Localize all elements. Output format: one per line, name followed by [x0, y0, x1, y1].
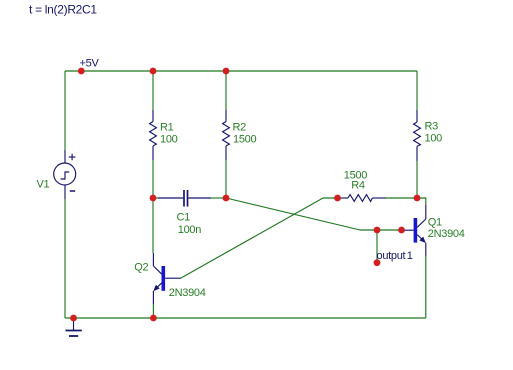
svg-text:Q2: Q2: [134, 262, 148, 274]
wire R1 bottom: [152, 160, 154, 198]
wire R2 top: [225, 71, 227, 110]
wire R3 top: [416, 71, 418, 110]
ground: [66, 318, 82, 336]
svg-text:2N3904: 2N3904: [428, 228, 465, 240]
resistor R3: [414, 110, 421, 161]
wire R1 top: [152, 71, 154, 110]
wire diagonal B (R4 left to Q2 base): [181, 198, 323, 278]
junction dot node C1 right: [223, 195, 230, 202]
svg-text:2N3904: 2N3904: [169, 287, 206, 299]
wire C1 left stub: [153, 197, 158, 199]
svg-text:1500: 1500: [233, 133, 256, 145]
svg-text:R4: R4: [351, 179, 365, 191]
svg-text:100n: 100n: [178, 224, 201, 236]
voltage source V1: [54, 150, 76, 199]
svg-text:output1: output1: [377, 250, 413, 262]
svg-text:R1: R1: [160, 122, 174, 134]
wire R4 right: [386, 197, 417, 199]
junction dot R1 top: [150, 68, 157, 75]
svg-text:V1: V1: [37, 179, 50, 191]
wire R3 bottom: [416, 161, 418, 198]
wire Q1 collector top: [417, 198, 426, 205]
wire top rail +5V: [65, 70, 417, 72]
resistor R4: [340, 195, 386, 202]
capacitor C1: [158, 190, 211, 207]
svg-text:C1: C1: [177, 212, 191, 224]
junction dot node C1 left: [150, 195, 157, 202]
wire R4 left horizontal: [323, 197, 340, 199]
junction dot Q1 base: [398, 227, 405, 234]
junction dot output tap: [374, 227, 381, 234]
junction dot +5V: [78, 68, 85, 75]
junction dot R4 left: [334, 195, 341, 202]
wire left rail upper: [64, 71, 66, 150]
wire Q2 collector top: [152, 198, 154, 253]
wire R2 bottom: [225, 160, 227, 198]
wire Q1 emitter bottom: [425, 256, 427, 318]
wire output tap: [376, 230, 378, 262]
node output1 terminal dot: [374, 259, 381, 266]
transistor Q1: [403, 205, 426, 256]
svg-text:R2: R2: [233, 122, 247, 134]
junction dot R4 right / Q1 collector: [414, 195, 421, 202]
svg-text:t = ln(2)R2C1: t = ln(2)R2C1: [29, 3, 97, 17]
junction dot R2 top: [223, 68, 230, 75]
junction dot ground: [70, 315, 77, 322]
resistor R1: [150, 110, 157, 160]
junction dot Q2 emitter: [150, 315, 157, 322]
svg-text:100: 100: [160, 133, 178, 145]
wire diagonal A (C1 right to Q1 base row): [226, 198, 360, 230]
svg-text:+5V: +5V: [80, 58, 100, 70]
wire C1 right stub: [211, 197, 226, 199]
wire bottom rail: [65, 317, 426, 319]
resistor R2: [223, 110, 230, 160]
wire left rail lower: [64, 199, 66, 318]
svg-text:100: 100: [425, 133, 443, 145]
transistor Q2: [153, 253, 181, 304]
wire Q2 emitter bottom: [152, 304, 154, 318]
svg-text:R3: R3: [425, 121, 439, 133]
wire base row horizontal: [360, 229, 403, 231]
svg-text:Q1: Q1: [428, 217, 442, 229]
